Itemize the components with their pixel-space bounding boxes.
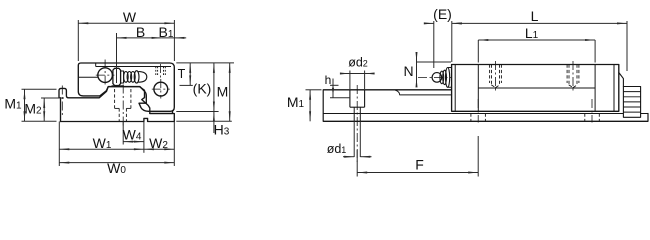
dim W0 — [59, 162, 174, 164]
B1 tapped hole hidden lines — [155, 67, 157, 76]
grease nipple left view — [113, 68, 121, 85]
tapped hole hidden lines in block (hole A) — [489, 65, 491, 84]
dim B — [116, 33, 118, 83]
block inner top line — [96, 66, 171, 68]
rail right portion — [641, 113, 648, 115]
block bottom / rail base top under block — [452, 113, 624, 115]
dim M1 left — [22, 88, 57, 90]
dim M2 left — [41, 97, 64, 99]
dim W2 — [173, 122, 175, 167]
tapped hole hidden lines in block (hole B) — [566, 65, 568, 84]
dim N — [416, 53, 418, 87]
left view: LM block cross-section outline — [78, 63, 174, 111]
svg-text:(E): (E) — [433, 6, 452, 22]
dim H3 — [213, 112, 215, 134]
dim M — [176, 120, 232, 122]
svg-text:ød2: ød2 — [348, 55, 368, 69]
svg-text:L: L — [531, 8, 539, 24]
rail mounting hole 3 hidden (under block) — [584, 114, 586, 122]
dim W1 — [58, 122, 60, 167]
svg-text:F: F — [415, 157, 424, 173]
rail mounting hole hidden lines (counterbore) — [114, 89, 116, 108]
svg-text:N: N — [403, 63, 413, 79]
rail hole 1 centerline — [356, 85, 358, 162]
dim B1 — [162, 37, 187, 39]
svg-text:B: B — [136, 24, 145, 40]
dim L — [626, 21, 628, 71]
dim W4 — [122, 122, 124, 145]
dim M1 right view — [306, 89, 322, 91]
ear hole centerline — [61, 86, 63, 116]
dim h — [330, 84, 339, 86]
side mounting hole circle right — [154, 82, 168, 96]
grease nipple side view — [418, 76, 452, 78]
svg-text:M: M — [217, 84, 229, 100]
ball / bore circle left — [98, 68, 113, 83]
svg-text:W: W — [123, 9, 137, 25]
rail counterbore section at left end — [349, 90, 351, 107]
svg-text:T: T — [178, 67, 186, 81]
rail mounting hole 2 hidden (under block) — [470, 114, 472, 122]
dim L1 — [477, 40, 479, 63]
rail hole centerline — [122, 85, 124, 127]
svg-text:h: h — [325, 73, 332, 87]
dim phi d2 — [349, 71, 351, 90]
dim F — [356, 150, 358, 177]
dim (K) — [176, 111, 218, 113]
block side view outline — [452, 65, 619, 112]
dim (E) — [433, 21, 435, 68]
dim W — [77, 20, 79, 61]
right view: rail side — [322, 90, 324, 122]
dim T — [176, 62, 234, 64]
block inner raceway line — [478, 87, 595, 89]
laminated scraper at right end — [619, 73, 624, 87]
svg-text:ød1: ød1 — [327, 142, 347, 156]
dim phi d1 — [353, 121, 355, 157]
svg-text:(K): (K) — [193, 80, 212, 96]
rail cross-section with left lip — [59, 87, 173, 122]
